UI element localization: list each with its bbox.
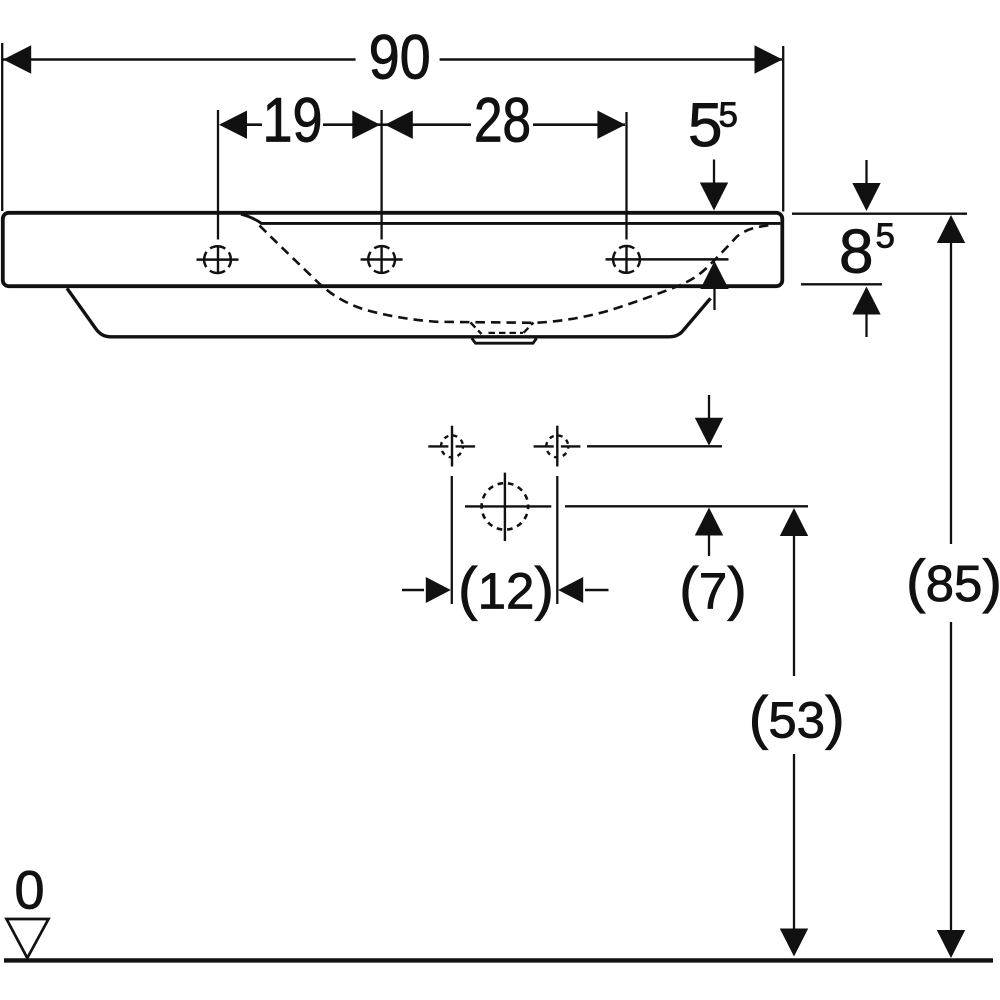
dimension (7): down arrowhead	[695, 418, 723, 446]
right side upper reference line	[792, 212, 967, 214]
dimension (85): down arrowhead	[937, 930, 965, 958]
tap hole 1 extension line	[217, 110, 219, 240]
bowl outlet funnel left (dashed)	[471, 323, 482, 335]
dimension 90: left extension line	[1, 43, 3, 211]
tap hole 2 horizontal centerline	[361, 258, 403, 261]
dimension (12): left extension line	[451, 476, 453, 604]
dimension (7): up arrowhead	[695, 508, 723, 536]
dimension (7): up arrow shaft	[708, 535, 710, 557]
mounting hole left crosshair circle (dashed)	[441, 435, 463, 457]
tap hole 3 center mark vertical	[625, 246, 627, 274]
tap hole 3 extension line	[625, 112, 627, 240]
lower mounting hole reference line	[565, 505, 808, 507]
dimension (12): right stub line	[585, 589, 609, 591]
tap hole 1 center mark vertical	[217, 246, 219, 274]
dimension (53): label	[752, 695, 841, 750]
dimension 28: left arrowhead	[385, 111, 413, 139]
mounting hole left vertical centerline	[451, 426, 453, 467]
dimension (85): label	[910, 558, 999, 613]
dimension 19/28: line segment b	[323, 123, 471, 126]
dimension 28: line segment c	[533, 123, 625, 126]
dimension 85h: superscript label	[877, 223, 894, 247]
upper mounting holes reference line	[587, 445, 722, 447]
dimension 28: right arrowhead	[597, 111, 625, 139]
dimension 19: right arrowhead	[352, 111, 380, 139]
dimension (12): right extension line	[556, 476, 558, 604]
datum zero label	[17, 871, 43, 909]
dimension 90: line right segment	[440, 58, 782, 61]
bowl outlet funnel bottom (dashed)	[489, 332, 524, 334]
dimension 85h: up arrowhead	[852, 287, 880, 315]
tap hole 3 horizontal centerline extended	[606, 258, 729, 261]
washbasin bowl hidden contour (dashed)	[260, 225, 770, 323]
dimension 90: line left segment	[3, 58, 356, 61]
dimension (12): label	[462, 566, 551, 621]
dimension (53): up arrowhead	[780, 508, 808, 536]
mounting hole right crosshair circle (dashed)	[546, 435, 568, 457]
floor ground line	[4, 958, 993, 962]
dimension (53): down arrowhead	[780, 929, 808, 957]
right side lower reference line	[801, 283, 882, 285]
dimension 85h: down arrowhead	[852, 183, 880, 211]
mounting hole right horizontal centerline a	[534, 445, 554, 447]
dimension 85h: up arrow shaft	[865, 314, 867, 338]
mounting hole left horizontal centerline a	[428, 445, 448, 447]
dimension (7): down arrow shaft	[708, 395, 710, 419]
dimension 55: up arrowhead at hole centerline	[700, 261, 728, 289]
dimension 19: left arrowhead	[219, 111, 247, 139]
drain outlet bump	[472, 338, 537, 343]
dimension 19: line segment a	[221, 123, 262, 126]
dimension (53): upper shaft	[793, 535, 795, 676]
dimension 90: label	[371, 35, 428, 80]
mounting hole right horizontal centerline b	[561, 445, 581, 447]
dimension 90: right extension line	[782, 46, 784, 212]
dimension (85): lower shaft	[950, 622, 952, 931]
washbasin body outline	[3, 213, 783, 286]
drain hole vertical centerline	[504, 473, 506, 541]
drain hole horizontal centerline	[465, 505, 551, 507]
dimension (53): lower shaft	[793, 754, 795, 929]
dimension 55: label	[690, 103, 719, 146]
dimension 55: down arrow shaft	[713, 160, 715, 185]
tap hole 1 horizontal centerline	[197, 258, 239, 261]
dimension (12): right arrowhead pointing left	[558, 577, 583, 603]
dimension 19: label	[267, 98, 320, 143]
dimension 90: left arrowhead	[3, 45, 31, 73]
datum triangle symbol	[7, 919, 49, 958]
dimension 55: up arrow shaft	[713, 288, 715, 310]
dimension (7): label	[683, 566, 743, 621]
mounting hole right vertical centerline	[556, 426, 558, 467]
washbasin apron outline	[67, 288, 711, 337]
mounting hole left horizontal centerline b	[456, 445, 476, 447]
dimension 55: down arrowhead	[700, 183, 728, 211]
bowl outlet funnel right (dashed)	[524, 323, 534, 333]
drain hole crosshair circle (dashed)	[482, 483, 529, 530]
dimension 90: right arrowhead	[755, 45, 783, 73]
dimension 55: superscript label	[720, 102, 737, 126]
washbasin top surface inner edge	[241, 214, 780, 223]
dimension (85): upper shaft	[950, 242, 952, 544]
dimension (12): left stub line	[402, 589, 424, 591]
tap hole 1 circle (dashed)	[204, 246, 231, 273]
dimension (12): left arrowhead pointing right	[426, 577, 451, 603]
tap hole 2 extension line	[380, 110, 382, 240]
dimension 85h: down arrow shaft	[865, 160, 867, 184]
dimension 28: label	[477, 98, 529, 143]
tap hole 2 circle (dashed)	[368, 246, 395, 273]
dimension 85h: label	[842, 229, 871, 273]
tap hole 2 center mark vertical	[380, 246, 382, 274]
tap hole 3 circle (dashed)	[613, 246, 640, 273]
dimension (85): up arrowhead	[937, 215, 965, 243]
